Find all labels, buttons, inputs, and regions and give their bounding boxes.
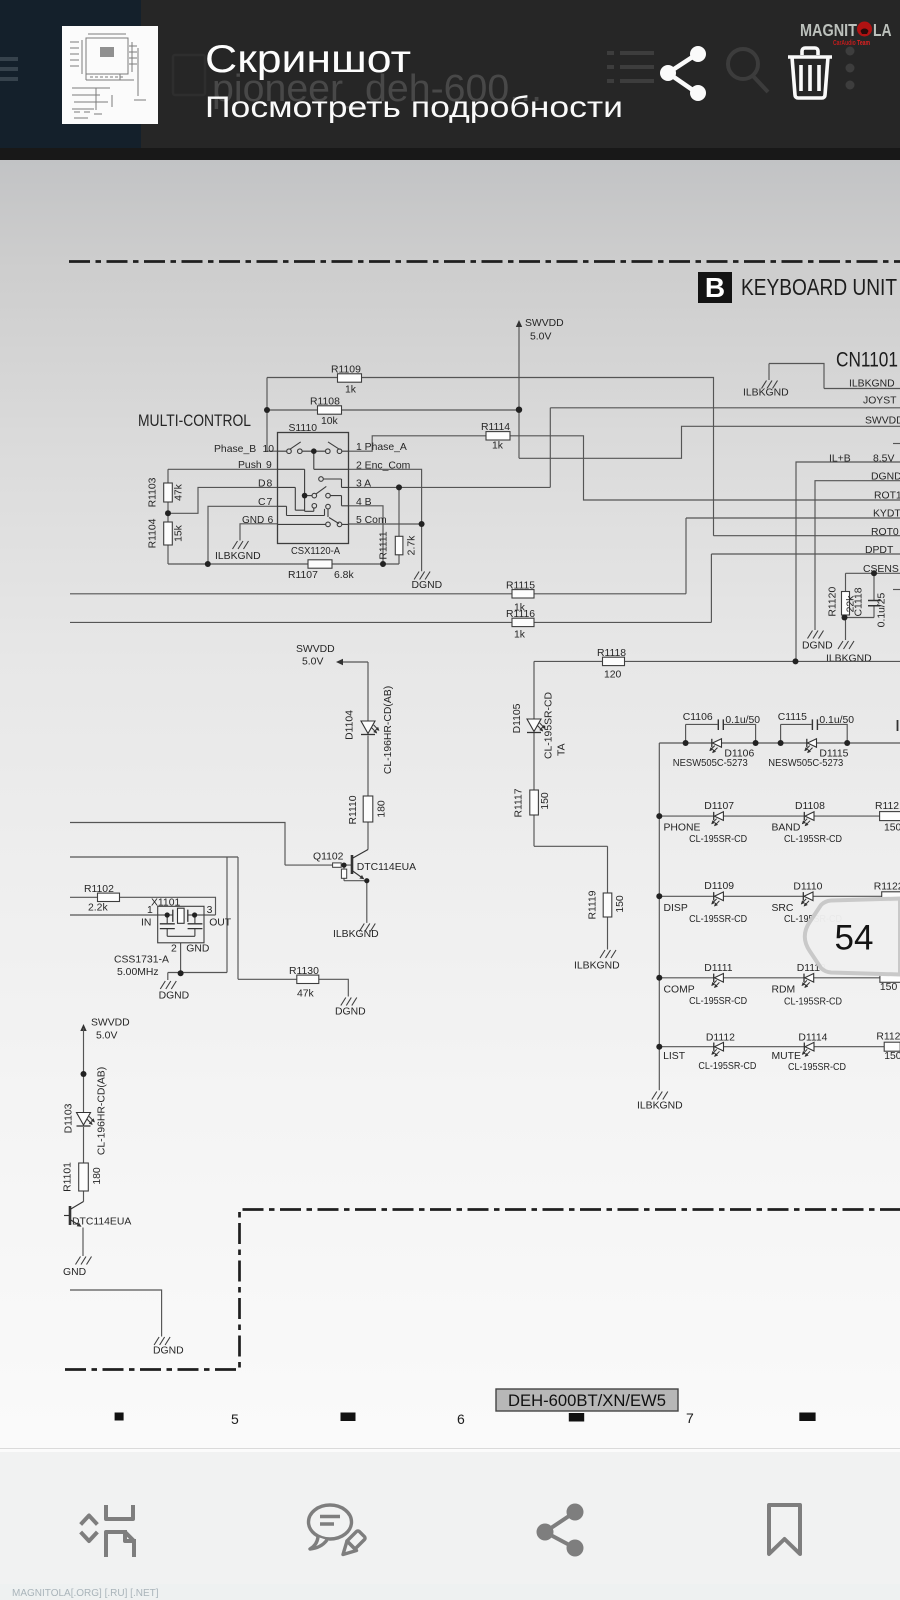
wire D8 jog [168,487,278,513]
svg-text:SWVDD: SWVDD [525,318,564,329]
resistor R1107 6.8k [288,560,354,581]
svg-text:MAGNITOLA[.ORG] [.RU] [.NET]: MAGNITOLA[.ORG] [.RU] [.NET] [12,1588,159,1599]
resistor R1101 [63,1162,104,1192]
LED D1108 [802,812,814,826]
transistor DTC114EUA (bottom, partial) [64,1202,131,1228]
wire LIST row [659,1046,884,1048]
crystal X1101 CSS1731-A [114,898,232,979]
capacitor C1106 0.1u/50 [683,712,760,730]
svg-text:IN: IN [141,918,151,929]
svg-text:1 Phase_A: 1 Phase_A [356,442,407,453]
svg-text:0.1u/50: 0.1u/50 [819,715,854,726]
svg-text:R1107: R1107 [288,570,318,581]
svg-text:R1120: R1120 [828,587,839,617]
wire R1116 row [70,621,512,623]
wire Enc_Com drop to DGND [349,469,422,571]
svg-text:ILBKGND: ILBKGND [743,388,789,399]
svg-text:10k: 10k [321,416,339,427]
svg-text:D1114: D1114 [798,1033,827,1044]
zone tick marks [115,1413,816,1422]
svg-text:NESW505C-5273: NESW505C-5273 [673,757,748,769]
svg-text:150: 150 [615,895,626,913]
svg-text:D1107: D1107 [704,801,734,812]
capacitor C1115 0.1u/50 [778,712,854,730]
svg-text:D1111: D1111 [704,963,733,974]
svg-text:D1108: D1108 [795,801,825,812]
svg-text:8.5V: 8.5V [873,454,894,465]
wire CSENS node [846,573,900,640]
svg-text:47k: 47k [174,483,185,501]
wire R1102 loop [70,897,216,915]
wire D1105 R1117 R1119 chain [534,661,608,949]
wire X1101 pin1 row [70,914,173,916]
svg-text:180: 180 [92,1167,103,1185]
LED D1110 [801,892,813,906]
svg-text:DTC114EUA: DTC114EUA [357,862,416,873]
svg-text:LIST: LIST [663,1051,686,1062]
svg-text:CSS1731-A: CSS1731-A [114,955,169,966]
svg-text:B: B [705,272,725,303]
wire Q1102 collector chain [343,662,368,850]
svg-text:DPDT: DPDT [865,545,894,556]
svg-text:6: 6 [457,1411,465,1427]
svg-text:DTC114EUA: DTC114EUA [72,1217,131,1228]
svg-text:6: 6 [268,515,274,526]
svg-text:R1102: R1102 [84,884,114,895]
svg-text:R1119: R1119 [588,890,599,919]
svg-text:C1106: C1106 [683,712,713,723]
svg-text:0.1u/25: 0.1u/25 [877,592,888,627]
wire bottom-left DGND branch [70,1290,162,1337]
svg-text:R1122: R1122 [874,882,900,893]
svg-text:LA: LA [873,20,892,40]
svg-text:D1110: D1110 [793,882,822,893]
svg-text:RDM: RDM [772,985,796,996]
wire R1118 row [534,660,900,662]
resistor R1110 [348,795,388,824]
switch S1110 internals [278,442,349,525]
wire C7 drop [208,506,278,564]
svg-text:SWVDD: SWVDD [865,416,900,427]
svg-text:DISP: DISP [664,903,688,914]
svg-text:ILBKGND: ILBKGND [574,961,620,972]
svg-text:C: C [258,497,266,508]
resistor R1109 [331,365,362,396]
svg-text:Phase_B: Phase_B [214,444,256,455]
svg-text:CL-195SR-CD: CL-195SR-CD [689,913,747,925]
svg-text:DGND: DGND [802,641,833,652]
svg-text:D1104: D1104 [345,710,356,740]
svg-text:CL-195SR-CD: CL-195SR-CD [788,1061,846,1073]
svg-text:2: 2 [171,944,177,955]
LED row LIST [663,1032,900,1074]
partial label at right edge of rail [897,720,899,731]
wire DISP row [659,895,881,897]
svg-text:BAND: BAND [772,823,801,834]
svg-text:R1111: R1111 [379,531,390,560]
ground DGND (right column) [808,631,824,639]
svg-text:ROT1: ROT1 [874,491,900,502]
svg-text:CN1101: CN1101 [836,349,898,372]
header [0,0,900,160]
svg-text:47k: 47k [297,989,315,1000]
svg-text:8: 8 [267,479,273,490]
wire Push row [168,468,278,470]
resistor R1103 [148,477,185,507]
svg-text:6.8k: 6.8k [334,570,354,581]
power SWVDD 5.0V (top) [516,318,564,343]
wire R1109 row to ROT0 [267,378,900,536]
svg-text:R1121: R1121 [875,801,900,812]
svg-text:R1103: R1103 [148,477,159,507]
svg-text:IL+B: IL+B [829,454,851,465]
ground DGND (R1130) [341,998,357,1006]
svg-text:ILBKGND: ILBKGND [637,1101,683,1112]
resistor R1111 [379,531,418,560]
svg-text:R1104: R1104 [148,518,159,548]
svg-text:Q1102: Q1102 [313,852,344,863]
svg-text:KEYBOARD UNIT: KEYBOARD UNIT [741,274,897,300]
svg-text:3: 3 [207,905,213,916]
svg-text:5: 5 [231,1411,239,1427]
ground ILBKGND (Q1102 emitter) [359,924,375,932]
svg-text:D: D [258,479,266,490]
svg-text:R1101: R1101 [63,1162,74,1192]
wire R1108 row [267,409,519,411]
svg-text:2.2k: 2.2k [88,903,108,914]
svg-text:MULTI-CONTROL: MULTI-CONTROL [138,412,251,430]
scroller bubble page 54 [805,899,900,975]
resistor R1123 [880,973,900,982]
svg-text:CSENS: CSENS [863,564,899,575]
wire DGND leg [815,481,900,630]
svg-text:0.1u/50: 0.1u/50 [725,715,760,726]
svg-text:ILBKGND: ILBKGND [849,379,895,390]
svg-text:ROT0: ROT0 [871,527,899,538]
svg-text:10: 10 [263,444,275,455]
svg-text:OUT: OUT [209,918,232,929]
wire Com row (pin5) [349,523,422,525]
wire CN1101 bracket [769,364,900,389]
wire Phase_A jog through R1114 to ROT1 [349,436,900,500]
svg-text:CL-196HR-CD(AB): CL-196HR-CD(AB) [97,1067,108,1155]
wire SWVDD bottom-left column [83,1028,85,1202]
wire ILBKGND LED bus [658,743,660,1090]
LED D1114 [802,1042,814,1056]
wire COMP row [659,977,880,979]
svg-text:Посмотреть подробности: Посмотреть подробности [205,91,623,124]
svg-text:DGND: DGND [335,1007,366,1018]
svg-text:R1114: R1114 [481,422,510,433]
svg-text:D1109: D1109 [704,881,734,892]
wire crystal ground tap [168,857,227,980]
svg-text:CL-195SR-CD: CL-195SR-CD [689,833,747,845]
svg-text:1k: 1k [345,385,357,396]
svg-text:DEH-600BT/XN/EW5: DEH-600BT/XN/EW5 [508,1392,666,1410]
svg-text:5 Com: 5 Com [356,515,387,526]
wire IL+B leg [796,462,900,661]
section letter B [698,272,732,303]
svg-text:ILBKGND: ILBKGND [826,654,872,665]
power SWVDD 5.0V (bottom left) [80,1018,129,1042]
svg-text:1k: 1k [492,441,504,452]
svg-text:5.0V: 5.0V [96,1031,117,1042]
svg-text:9: 9 [266,460,272,471]
svg-text:2 Enc_Com: 2 Enc_Com [356,460,410,471]
resistor R1119 [588,890,627,919]
svg-text:GND: GND [242,515,264,526]
svg-text:KYDT: KYDT [873,509,900,520]
svg-text:S1110: S1110 [289,423,318,434]
wire PHONE row [659,815,879,817]
LED row DISP [664,881,900,925]
LED D1112 [712,1042,724,1056]
svg-text:D1112: D1112 [706,1033,735,1044]
svg-text:ILBKGND: ILBKGND [215,551,261,562]
resistor R1108 [310,397,342,428]
component R1120 [828,587,857,617]
svg-text:R1130: R1130 [289,966,319,977]
svg-text:5.00MHz: 5.00MHz [117,967,159,978]
transistor Q1102 DTC114EUA [313,850,416,879]
dash-dot page border top [69,260,900,263]
ground ILBKGND (R1119) [600,950,616,958]
wire Phase_B pullup column [267,378,278,452]
svg-text:4 B: 4 B [356,497,372,508]
svg-text:NESW505C-5273: NESW505C-5273 [768,757,843,769]
svg-text:150: 150 [884,823,900,834]
svg-text:Скриншот: Скриншот [205,38,411,81]
svg-text:DGND: DGND [159,991,190,1002]
svg-text:7: 7 [686,1410,694,1426]
wire A row (pin3) [349,486,551,488]
ground DGND (Enc_Com) [414,572,430,580]
svg-text:R1115: R1115 [506,581,535,592]
svg-text:CarAudio Team: CarAudio Team [833,38,870,47]
LED D1107 [712,812,724,826]
wire R1111 legs [398,487,400,564]
svg-text:C1115: C1115 [778,712,807,723]
resistor R1121 [880,812,900,821]
svg-text:150: 150 [880,982,898,993]
svg-text:D1105: D1105 [512,703,523,733]
LED D1113 [802,974,814,988]
resistor R1114 [481,422,510,451]
svg-text:ILBKGND: ILBKGND [333,929,379,940]
wire B row (pin4) drop [349,506,384,564]
wire Q1102 BE resistor legs [344,865,367,881]
LED D1109 [712,892,724,906]
svg-text:7: 7 [267,497,273,508]
svg-text:120: 120 [604,670,622,681]
resistor R1124 [884,1042,900,1051]
resistor R1130 [289,966,319,1000]
svg-text:C1118: C1118 [854,587,865,616]
wire Q1102 emitter to ground [366,881,368,923]
svg-text:R1124: R1124 [876,1032,900,1043]
ground GND (bottom transistor) [76,1257,92,1265]
ground ILBKGND (S1110 pin6) [233,541,249,549]
svg-text:CL-195SR-CD: CL-195SR-CD [698,1060,756,1072]
svg-text:COMP: COMP [664,985,695,996]
svg-text:5.0V: 5.0V [530,332,551,343]
wire R1103/R1104 column [167,469,169,564]
wire JOYST row [550,408,900,488]
wire LED top rail [659,742,900,744]
resistor R1102 [84,884,120,914]
svg-text:JOYST: JOYST [863,396,897,407]
resistor R1122 [882,892,900,901]
wire stub pin row 12 [893,589,900,591]
switch S1110 box [278,433,349,544]
resistor R1117 [514,788,552,817]
LED row PHONE [664,801,900,845]
svg-text:2.7k: 2.7k [407,535,418,555]
wire SWVDD column and stair to SWVDD pin [519,325,900,458]
svg-text:TA: TA [557,743,568,756]
wire GND6 drop [240,524,278,541]
svg-text:CL-196HR-CD(AB): CL-196HR-CD(AB) [383,686,394,774]
svg-text:5.0V: 5.0V [302,657,323,668]
LED D1103 CL-196HR-CD(AB) [77,1113,95,1127]
LED D1115 NESW505C-5273 [805,739,817,753]
svg-text:DGND: DGND [153,1346,184,1357]
svg-text:1k: 1k [514,630,526,641]
svg-text:R1109: R1109 [331,365,361,376]
svg-text:1: 1 [147,905,153,916]
svg-text:CSX1120-A: CSX1120-A [291,546,340,557]
LED row COMP [664,963,898,1008]
wire bottom rail of multi-control [168,563,399,565]
svg-text:CL-195SR-CD: CL-195SR-CD [544,692,555,759]
LED D1104 CL-196HR-CD(AB) [361,721,379,735]
ground DGND (X1101) [160,981,176,989]
capacitor C1118 0.1u/25 [854,587,888,627]
svg-text:R1108: R1108 [310,397,340,408]
svg-text:D1103: D1103 [64,1103,75,1133]
svg-text:R1118: R1118 [597,648,626,659]
svg-text:180: 180 [377,800,388,818]
wire bottom transistor emitter to GND [82,1228,84,1257]
svg-text:SWVDD: SWVDD [296,644,335,655]
ground ILBKGND (LED bus) [652,1092,668,1100]
svg-text:DGND: DGND [871,472,900,483]
wire R1130 feed row [70,857,348,997]
wire Q1102 base row [70,823,351,866]
ground DGND (bottom left) [154,1337,170,1345]
svg-text:R1117: R1117 [514,788,525,817]
svg-text:R1110: R1110 [348,795,359,824]
svg-text:CL-195SR-CD: CL-195SR-CD [689,995,747,1007]
resistor R1116 [506,609,535,641]
ground ILBKGND (R1120/C1118) [838,641,854,649]
model plate DEH-600BT/XN/EW5 [496,1389,678,1411]
wire C1115 branch [781,724,848,743]
LED D1111 [712,974,724,988]
svg-text:Push: Push [238,460,262,471]
svg-text:SWVDD: SWVDD [91,1018,130,1029]
svg-text:54: 54 [835,919,874,958]
svg-text:PHONE: PHONE [664,823,701,834]
svg-text:MAGNIT: MAGNIT [800,20,857,40]
wire KYDT stair to R1115 [534,518,900,594]
svg-text:3 A: 3 A [356,478,371,489]
LED D1106 NESW505C-5273 [710,739,722,753]
wire C1106 branch [686,724,756,743]
svg-text:CL-195SR-CD: CL-195SR-CD [784,833,842,845]
svg-text:DGND: DGND [412,580,443,591]
wire R1115 row [70,593,512,595]
svg-text:150: 150 [884,1051,900,1062]
svg-text:15k: 15k [174,524,185,542]
svg-text:CL-195SR-CD: CL-195SR-CD [784,996,842,1008]
power SWVDD 5.0V (middle, arrow left) [296,644,343,668]
LED D1105 CL-195SR-CD TA [527,719,545,733]
wire stub pin row 4 [893,443,900,445]
wire DPDT stair to R1116 [534,554,900,622]
resistor R1115 [506,581,535,614]
resistor R1104 [148,518,185,548]
svg-text:X1101: X1101 [151,898,180,909]
svg-text:GND: GND [186,944,209,955]
dash-dot page border bottom-left [65,1210,900,1370]
svg-text:150: 150 [540,792,551,810]
svg-text:GND: GND [63,1267,86,1278]
resistor R1118 120 [597,648,626,681]
svg-text:R1116: R1116 [506,609,535,620]
